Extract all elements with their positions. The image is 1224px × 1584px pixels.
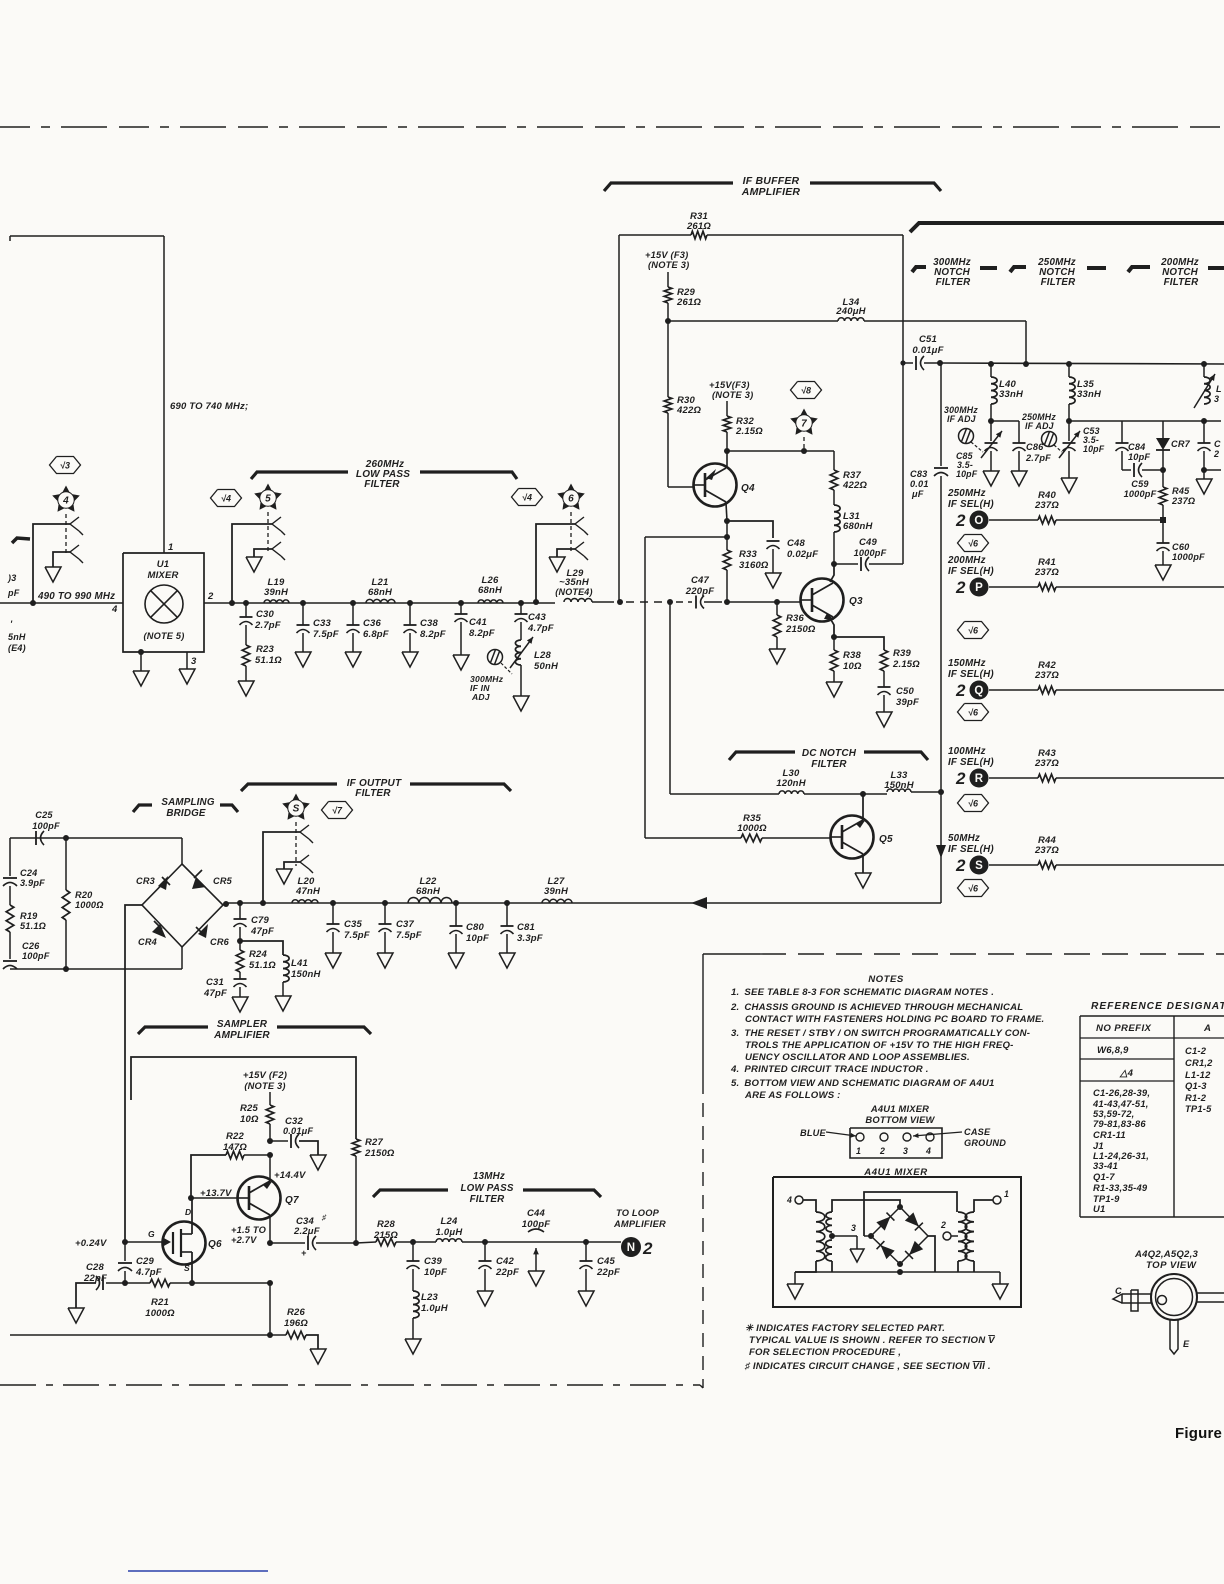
ground C41 xyxy=(453,655,469,670)
svg-text:240μH: 240μH xyxy=(835,306,866,317)
capacitor C44 feedthrough xyxy=(528,1229,544,1286)
svg-text:TP1-5: TP1-5 xyxy=(1185,1103,1212,1114)
bracket IF buffer left xyxy=(604,183,733,191)
resistor R19 xyxy=(6,905,14,932)
label C44 xyxy=(522,1208,550,1230)
inductor L41 branch xyxy=(240,941,289,996)
diode ring D4 xyxy=(905,1241,923,1259)
svg-text:C28: C28 xyxy=(86,1262,105,1273)
svg-text:FILTER: FILTER xyxy=(364,479,400,490)
probe 5 wire xyxy=(232,524,272,603)
svg-text:422Ω: 422Ω xyxy=(676,405,701,416)
svg-text:1000pF: 1000pF xyxy=(1124,489,1157,499)
label L19 xyxy=(264,577,289,598)
ground C38 xyxy=(402,652,418,667)
resistor R31 xyxy=(691,231,707,239)
resistor R36 xyxy=(773,602,781,637)
svg-text:2.2μF: 2.2μF xyxy=(293,1226,320,1237)
wire bridge right to filter xyxy=(223,903,941,905)
svg-text:5. BOTTOM VIEW AND SCHEMATIC D: 5. BOTTOM VIEW AND SCHEMATIC DIAGRAM OF … xyxy=(731,1078,995,1089)
svg-text:22pF: 22pF xyxy=(596,1267,620,1278)
junction L36-bus xyxy=(1201,361,1207,367)
junction probe5 tap xyxy=(229,600,235,606)
capacitor C42 xyxy=(479,1242,492,1291)
svg-text:√6: √6 xyxy=(968,707,979,717)
svg-text:13MHz: 13MHz xyxy=(473,1171,505,1182)
wire 250 rail xyxy=(1069,420,1204,422)
wire dashed segment a xyxy=(626,601,664,603)
ground C42 xyxy=(477,1291,493,1306)
probe 5 dashed line xyxy=(267,512,269,554)
junction R22 node xyxy=(267,1152,273,1158)
ground Q5 xyxy=(855,873,871,888)
net 50MHz IF SEL R44 xyxy=(948,833,1224,875)
junction probe S tap xyxy=(260,900,266,906)
capacitor C38 xyxy=(404,603,417,652)
label C lead xyxy=(1115,1286,1122,1296)
svg-text:47pF: 47pF xyxy=(203,988,227,999)
svg-text:SAMPLING: SAMPLING xyxy=(161,797,214,808)
Q3 collector wire xyxy=(830,564,834,582)
svg-text:√4: √4 xyxy=(522,492,532,502)
label R33 xyxy=(739,549,769,571)
svg-text:CR3: CR3 xyxy=(136,876,155,886)
inductor L29 xyxy=(564,599,592,602)
svg-text:♯ INDICATES CIRCUIT CHANGE , S: ♯ INDICATES CIRCUIT CHANGE , SEE SECTION… xyxy=(744,1361,991,1372)
probe 4 lower contact xyxy=(70,545,83,563)
svg-text:C24: C24 xyxy=(20,868,37,878)
diode CR5 xyxy=(192,870,206,889)
svg-text:220pF: 220pF xyxy=(685,586,714,597)
label C35 xyxy=(344,919,370,941)
svg-text:IF SEL(H): IF SEL(H) xyxy=(948,757,994,768)
svg-text:ARE AS FOLLOWS :: ARE AS FOLLOWS : xyxy=(744,1090,841,1101)
svg-text:MIXER: MIXER xyxy=(147,570,178,581)
bracket 260MHz LPF left xyxy=(251,472,348,479)
label C30 xyxy=(254,609,281,631)
junction R20 top xyxy=(63,835,69,841)
bracket 13MHz left xyxy=(373,1190,448,1197)
resistor R25 xyxy=(266,1105,274,1124)
svg-text:196Ω: 196Ω xyxy=(284,1318,308,1329)
footnote asterisk 3 xyxy=(749,1347,901,1358)
svg-text:C35: C35 xyxy=(344,919,363,930)
diode CR3 xyxy=(158,876,170,890)
label C50 xyxy=(896,686,919,708)
svg-text:1000pF: 1000pF xyxy=(854,548,887,558)
svg-text:GROUND: GROUND xyxy=(964,1138,1006,1148)
junction L33-bus xyxy=(938,789,944,795)
wire bridge left to sampler xyxy=(125,905,142,1242)
table title xyxy=(1091,1001,1224,1012)
label L41 xyxy=(291,958,321,980)
svg-text:FILTER: FILTER xyxy=(470,1194,505,1205)
test point star 7 xyxy=(790,409,818,435)
ground L41 xyxy=(275,996,291,1011)
ground L23 xyxy=(405,1339,421,1354)
junction Q7 base node xyxy=(188,1195,194,1201)
svg-text:√7: √7 xyxy=(332,805,343,815)
wire R39 to C50 xyxy=(883,671,885,687)
Q4 collector wire xyxy=(726,451,728,466)
junction Q4 collector node xyxy=(724,448,730,454)
svg-text:200MHz: 200MHz xyxy=(947,555,986,566)
bracket DC notch left xyxy=(729,752,795,760)
wire +15V to R32 xyxy=(726,401,728,416)
mixer pin 3 stub xyxy=(187,652,197,669)
wire C86 branch xyxy=(991,421,1019,443)
label 300MHz IF IN ADJ xyxy=(470,674,504,702)
label TOP VIEW xyxy=(1146,1260,1197,1271)
svg-text:3. THE RESET / STBY / ON SWITC: 3. THE RESET / STBY / ON SWITCH PROGRAMA… xyxy=(731,1028,1030,1039)
capacitor C37 xyxy=(379,903,392,953)
wire bus C83 down xyxy=(940,476,942,792)
resistor R27 xyxy=(352,1139,360,1156)
svg-text:CR7: CR7 xyxy=(1171,439,1191,449)
svg-text:C39: C39 xyxy=(424,1256,443,1267)
wire +15V to R25 xyxy=(269,1092,271,1105)
ground L28 xyxy=(513,696,529,711)
label L29 xyxy=(555,568,592,597)
svg-text:Q7: Q7 xyxy=(285,1195,299,1206)
probe 6 wire xyxy=(536,524,575,602)
junction R33 top node xyxy=(724,534,730,540)
capacitor C79 xyxy=(234,903,247,941)
svg-text:C59: C59 xyxy=(1131,479,1149,489)
svg-text:Q1-7: Q1-7 xyxy=(1093,1171,1115,1182)
svg-text:CASE: CASE xyxy=(964,1127,991,1137)
node 490 TO 990 MHz wire xyxy=(0,602,123,604)
ground R26 xyxy=(310,1349,326,1364)
transistor top view tab xyxy=(1158,1296,1167,1305)
svg-text:L28: L28 xyxy=(534,650,551,661)
wire bridge bottom stub xyxy=(181,947,183,969)
svg-text:10pF: 10pF xyxy=(424,1267,447,1278)
svg-text:N: N xyxy=(627,1242,636,1254)
inductor L22 xyxy=(408,898,452,904)
svg-text:10Ω: 10Ω xyxy=(843,661,862,672)
svg-text:W6,8,9: W6,8,9 xyxy=(1097,1045,1129,1056)
probe 4 upper contact xyxy=(70,517,83,535)
svg-text:1: 1 xyxy=(168,542,173,553)
svg-text:R36: R36 xyxy=(786,613,805,624)
svg-text:C83: C83 xyxy=(910,469,927,479)
svg-text:4: 4 xyxy=(62,496,69,507)
label L27 xyxy=(544,876,569,897)
test point hex V6 a xyxy=(958,535,989,552)
label 690 TO 740 MHz xyxy=(170,401,248,412)
inductor L36 variable xyxy=(1194,364,1215,408)
Q6 drain wire xyxy=(191,1198,193,1234)
ground probe S xyxy=(276,869,292,884)
svg-text:250MHz: 250MHz xyxy=(947,488,986,499)
svg-text:4.7pF: 4.7pF xyxy=(527,623,554,634)
svg-text:8.2pF: 8.2pF xyxy=(469,628,495,639)
junction R36 node xyxy=(774,599,780,605)
svg-text:IF SEL(H): IF SEL(H) xyxy=(948,669,994,680)
wire bottom rail right end xyxy=(999,1272,1001,1284)
inductor L35 xyxy=(1069,364,1075,404)
label R24 xyxy=(249,949,276,971)
junction C37 xyxy=(382,900,388,906)
wire left shunt chain top xyxy=(9,838,11,876)
svg-text:Q4: Q4 xyxy=(741,483,755,494)
svg-text:2.7pF: 2.7pF xyxy=(1025,453,1051,463)
connector N2 xyxy=(621,1237,653,1258)
transistor Q6 FET xyxy=(163,1222,206,1265)
mixer pin 4 label xyxy=(111,604,118,615)
svg-text:2: 2 xyxy=(1213,449,1219,459)
wire R25 to C32 node xyxy=(269,1124,271,1141)
wire L40 to nodeA xyxy=(990,404,992,421)
label C26 xyxy=(22,941,50,961)
label TO LOOP AMPLIFIER xyxy=(613,1208,666,1229)
wire R33 bottom xyxy=(726,570,728,602)
label +13.7V xyxy=(200,1188,232,1199)
Q7 collector arrow xyxy=(263,1180,273,1189)
wire gate to Q6 xyxy=(125,1237,171,1247)
svg-text:IF SEL(H): IF SEL(H) xyxy=(948,566,994,577)
junction C36 xyxy=(350,600,356,606)
svg-text:C33: C33 xyxy=(313,618,332,629)
wire 260MHz LPF main xyxy=(232,602,555,604)
diode CR7 xyxy=(1156,421,1170,470)
table bottom xyxy=(1080,1216,1224,1218)
inductor L26 xyxy=(478,600,503,603)
junction probe6 tap xyxy=(533,599,539,605)
junction T1 center tap xyxy=(829,1233,835,1239)
svg-text:Q1-3: Q1-3 xyxy=(1185,1080,1207,1091)
adjust 300MHz IF ADJ xyxy=(959,429,984,453)
svg-text:IF ADJ: IF ADJ xyxy=(947,414,977,424)
resistor R37 xyxy=(830,470,838,490)
junction C32 node xyxy=(267,1138,273,1144)
svg-text:2.15Ω: 2.15Ω xyxy=(892,659,920,670)
svg-text:S: S xyxy=(184,1263,190,1273)
svg-text:C30: C30 xyxy=(256,609,275,620)
wire L30 to L33 xyxy=(804,793,887,795)
svg-text:C1-2: C1-2 xyxy=(1185,1045,1207,1056)
probe 6 dashed line xyxy=(570,512,572,554)
ground C28 xyxy=(68,1308,84,1323)
svg-text:5: 5 xyxy=(265,494,271,505)
svg-text:CR4: CR4 xyxy=(138,937,157,947)
wire to DC notch left rail xyxy=(645,536,727,538)
mixer U1 title xyxy=(147,559,178,581)
diode ring D2 xyxy=(905,1212,923,1230)
svg-text:TROLS THE APPLICATION OF +15V: TROLS THE APPLICATION OF +15V TO THE HIG… xyxy=(745,1040,1014,1051)
label L35 xyxy=(1077,379,1102,400)
footnote sharp xyxy=(744,1361,991,1372)
label R36 xyxy=(785,613,816,635)
wire C87 bottom stub xyxy=(1204,470,1221,479)
junction R21 left node xyxy=(122,1280,128,1286)
svg-text:2.7pF: 2.7pF xyxy=(254,620,281,631)
svg-text:7.5pF: 7.5pF xyxy=(344,930,370,941)
ground C36 xyxy=(345,652,361,667)
junction R40 node xyxy=(1160,517,1166,523)
inductor L31 xyxy=(834,505,840,532)
svg-text:L24: L24 xyxy=(441,1216,458,1227)
wire R20 bottom xyxy=(65,920,67,969)
capacitor C87 xyxy=(1198,421,1211,470)
junction diamond top xyxy=(897,1204,903,1210)
Q4 emitter arrow xyxy=(706,469,716,480)
table left edge xyxy=(1079,1016,1081,1217)
capacitor C80 xyxy=(450,903,463,953)
capacitor C33 xyxy=(297,603,310,652)
heading 260MHz low pass filter xyxy=(356,459,410,490)
junction feedback tap xyxy=(617,599,623,605)
label C41 xyxy=(469,617,495,639)
test point hex V4 a xyxy=(211,490,242,507)
bracket 13MHz right xyxy=(523,1190,601,1197)
Q7 collector wire xyxy=(269,1155,271,1181)
bottom view pin 4 xyxy=(925,1133,934,1156)
svg-text:✳ INDICATES FACTORY SELECTED P: ✳ INDICATES FACTORY SELECTED PART. xyxy=(745,1323,945,1334)
probe S dashed line xyxy=(295,822,297,866)
junction diamond bottom xyxy=(897,1261,903,1267)
table right column list xyxy=(1185,1045,1213,1114)
label C34 xyxy=(293,1213,327,1237)
svg-text:A4U1 MIXER: A4U1 MIXER xyxy=(870,1103,929,1114)
label C36 xyxy=(363,618,389,640)
svg-text:C43: C43 xyxy=(528,612,547,623)
capacitor C35 xyxy=(327,903,340,953)
ground C86 xyxy=(1011,471,1027,486)
label C31 xyxy=(203,977,227,999)
heading SAMPLING BRIDGE xyxy=(161,797,214,819)
wire emitter to R33 xyxy=(726,521,728,550)
mixer U1 note xyxy=(144,631,185,641)
Q3 emitter arrow xyxy=(824,613,834,620)
svg-text:L23: L23 xyxy=(421,1292,438,1303)
net 100MHz IF SEL R43 xyxy=(948,746,1224,788)
ground C53 xyxy=(1061,478,1077,493)
bottom-left dash-dot border xyxy=(0,1384,700,1386)
svg-text:68nH: 68nH xyxy=(478,585,503,596)
test point star 4 xyxy=(52,486,80,512)
label L23 xyxy=(421,1292,449,1314)
footnote asterisk 2 xyxy=(749,1335,996,1346)
label R31 xyxy=(686,211,711,232)
heading DC NOTCH FILTER xyxy=(802,748,857,770)
transformer T1 primary xyxy=(816,1212,825,1261)
resistor R35 xyxy=(741,834,762,842)
junction C33 xyxy=(300,600,306,606)
wire rail top outer xyxy=(864,1192,957,1236)
svg-text:2150Ω: 2150Ω xyxy=(785,624,816,635)
svg-text:+15V (F3): +15V (F3) xyxy=(645,250,688,260)
svg-text:D: D xyxy=(185,1207,191,1217)
capacitor C49 series xyxy=(861,557,869,571)
A4U1 box xyxy=(773,1177,1021,1307)
svg-text:(NOTE4): (NOTE4) xyxy=(555,587,592,597)
label R25 xyxy=(240,1103,259,1125)
heading 300MHz notch filter xyxy=(933,257,971,288)
wire R31 top rail left xyxy=(619,234,691,236)
svg-text:2: 2 xyxy=(940,1220,946,1230)
test point hex V6 e xyxy=(958,880,989,897)
wire R32 to junction xyxy=(726,432,728,451)
transformer T2 primary xyxy=(958,1212,967,1261)
svg-text:R19: R19 xyxy=(20,911,38,921)
ground C81 xyxy=(499,953,515,968)
junction star7 tap xyxy=(801,448,807,454)
label L31 xyxy=(843,511,873,532)
transistor Q7 xyxy=(238,1177,281,1220)
wire R45 to C60 xyxy=(1162,505,1164,543)
svg-text:CR5: CR5 xyxy=(213,876,233,886)
ground probe 4 xyxy=(45,567,61,582)
bracket mark 200 left xyxy=(1128,267,1224,272)
wire L34 rail left xyxy=(668,320,838,322)
bracket notch section heavy top xyxy=(910,223,1224,232)
svg-text:3160Ω: 3160Ω xyxy=(739,560,769,571)
note 5 line1 xyxy=(731,1078,995,1089)
wire mixer bottom rail xyxy=(795,1269,1000,1275)
junction C79 top xyxy=(237,900,243,906)
label +0.24V xyxy=(75,1238,107,1249)
wire L35 to nodeB xyxy=(1068,404,1070,421)
svg-text:CR1-11: CR1-11 xyxy=(1093,1129,1126,1140)
svg-text:3: 3 xyxy=(191,656,197,667)
label +15V F3 note3 b xyxy=(709,380,753,400)
test point hex V6 c xyxy=(958,704,989,721)
terminal 4 xyxy=(786,1195,803,1205)
label C47 xyxy=(685,575,714,597)
resistor R24 xyxy=(236,941,244,972)
label R32 xyxy=(735,416,763,437)
adjust 300MHz IF IN ADJ xyxy=(488,650,513,675)
svg-text:4: 4 xyxy=(786,1195,792,1205)
probe 6 ground wire xyxy=(557,549,575,557)
capacitor C48 xyxy=(767,541,780,573)
svg-text:(NOTE 3): (NOTE 3) xyxy=(244,1081,285,1091)
junction 200 node C xyxy=(1201,418,1207,424)
capacitor C24 series xyxy=(3,878,17,886)
svg-text:4. PRINTED CIRCUIT TRACE INDUC: 4. PRINTED CIRCUIT TRACE INDUCTOR . xyxy=(730,1064,929,1075)
capacitor C30 xyxy=(240,603,253,645)
label +1.5 TO +2.7V xyxy=(231,1225,267,1245)
svg-text:U1: U1 xyxy=(1093,1203,1105,1214)
heading 200MHz notch filter xyxy=(1160,257,1199,288)
note 2 line1 xyxy=(730,1002,1023,1013)
svg-text:C80: C80 xyxy=(466,922,485,933)
svg-text:TYPICAL VALUE IS SHOWN . REFE: TYPICAL VALUE IS SHOWN . REFER TO SECTIO… xyxy=(749,1335,996,1346)
net 200MHz IF SEL R41 xyxy=(947,555,1224,597)
label C39 xyxy=(424,1256,447,1278)
resistor R28 xyxy=(376,1238,396,1246)
wire C49 right xyxy=(869,563,903,565)
wire bridge bottom rail xyxy=(10,968,182,970)
svg-text:1. SEE TABLE 8-3 FOR SCHEMATIC: 1. SEE TABLE 8-3 FOR SCHEMATIC DIAGRAM N… xyxy=(731,987,994,998)
label Q5 xyxy=(879,834,893,845)
junction Q5 collector node xyxy=(860,791,866,797)
label Q6 xyxy=(208,1239,222,1250)
wire L24 to out xyxy=(462,1241,621,1243)
svg-text:NOTES: NOTES xyxy=(868,974,904,985)
wire R31 top rail right xyxy=(707,234,903,236)
svg-text:1.0μH: 1.0μH xyxy=(436,1227,464,1238)
junction C45 node xyxy=(583,1239,589,1245)
probe 6 lower contact xyxy=(575,542,588,560)
svg-text:√6: √6 xyxy=(968,625,979,635)
label C49 xyxy=(854,537,887,558)
base lead right xyxy=(1197,1293,1224,1302)
svg-text:BLUE: BLUE xyxy=(800,1128,826,1138)
svg-text:2. CHASSIS GROUND IS ACHIEVED: 2. CHASSIS GROUND IS ACHIEVED THROUGH ME… xyxy=(730,1002,1023,1013)
